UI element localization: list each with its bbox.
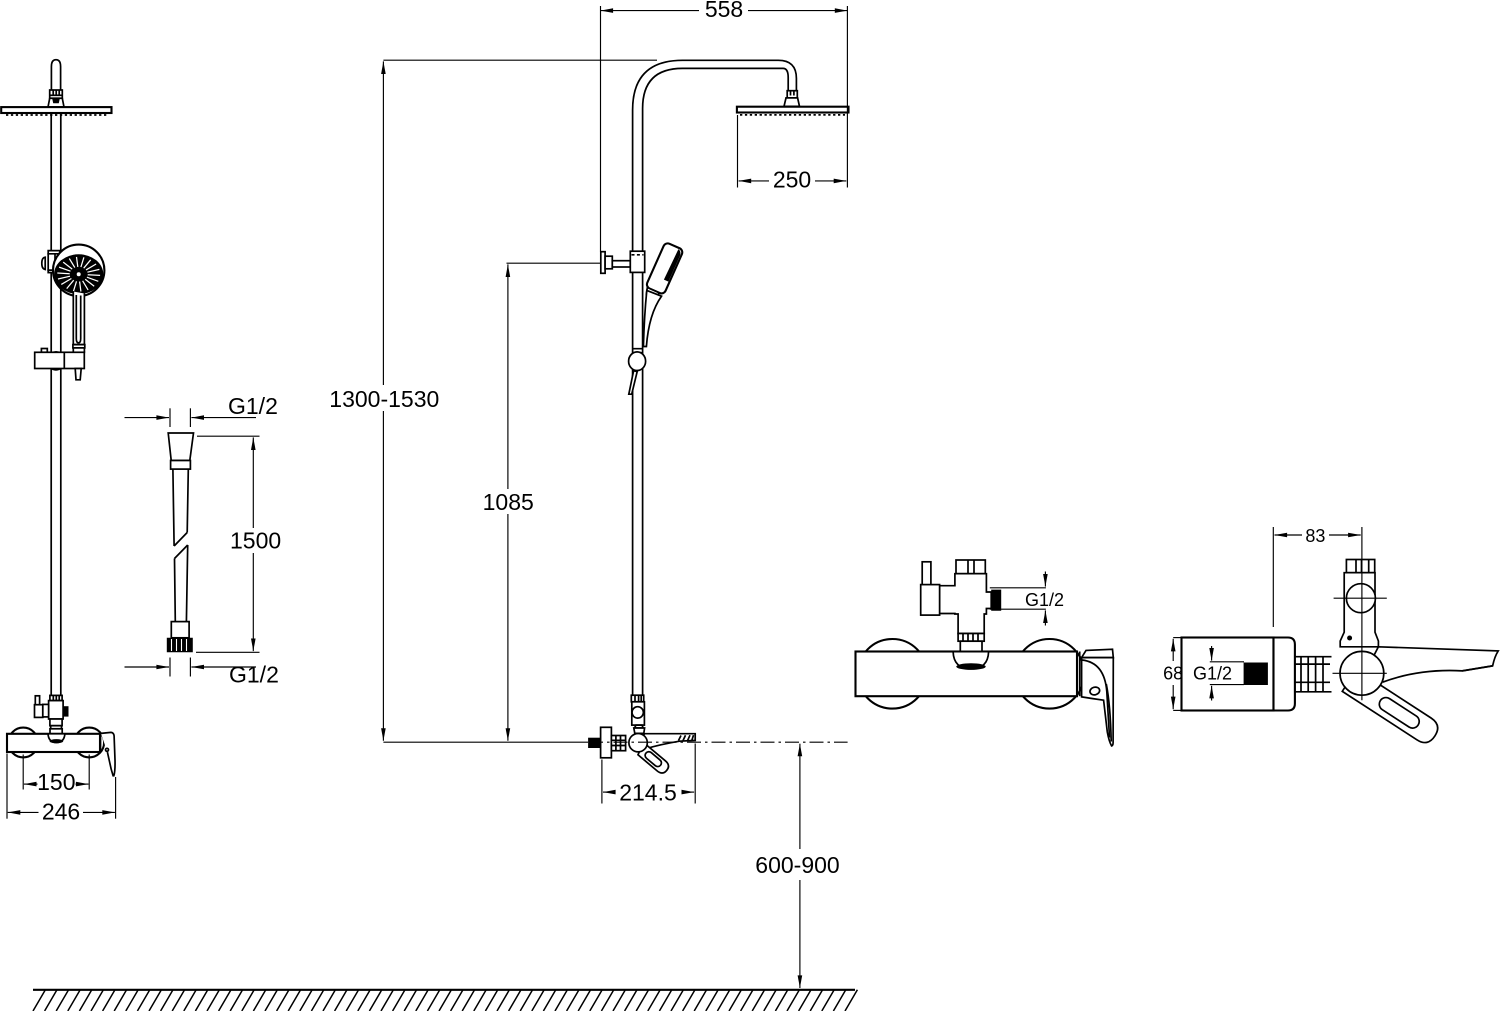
hose tube upper segment [173, 469, 188, 546]
diverter right port G1/2 (dark) [991, 590, 1001, 611]
hand shower handle [73, 292, 84, 345]
hand shower outer housing [53, 245, 104, 296]
diverter threads [958, 634, 984, 642]
hose bottom nut (dark) [167, 638, 193, 653]
diverter top nut [956, 560, 985, 574]
hose tube lower segment [175, 545, 188, 622]
dim G1/2 top ticks [169, 408, 171, 427]
mixer valve body circle [629, 734, 647, 752]
slider bracket [41, 349, 47, 353]
diverter vertical body [1340, 573, 1378, 647]
diverter top nut [1346, 560, 1374, 573]
left escutcheon circle [858, 639, 928, 709]
dim G1/2 bottom arrows [125, 666, 170, 668]
svg-text:68: 68 [1163, 663, 1183, 683]
diverter body [940, 574, 992, 634]
head flange (side) [784, 98, 800, 107]
dim 1085 [507, 264, 509, 489]
right escutcheon circle [74, 728, 104, 758]
diverter lower neck [960, 641, 982, 651]
diverter left lever [922, 562, 931, 587]
svg-text:83: 83 [1305, 526, 1325, 546]
diverter right port G1/2 [63, 706, 68, 716]
mixer inlet port G1/2 (dark) [588, 738, 600, 748]
diverter body [49, 701, 64, 719]
spout underside dark edge [1462, 666, 1492, 671]
overhead shower plate (front) [1, 107, 111, 113]
mixer body (front) [7, 734, 100, 752]
small dark dot [1347, 636, 1352, 641]
riser pipe with top bend (side view) [633, 60, 797, 695]
left escutcheon circle [8, 728, 38, 758]
adapter pivot circle [632, 707, 643, 718]
slider holder clamp [633, 349, 642, 353]
diverter lower neck [50, 719, 62, 726]
diverter top nut [50, 695, 62, 700]
dim 558 left extension line [600, 6, 602, 252]
mixer wall flange (side) [601, 727, 612, 758]
inlet port G1/2 (dark) [1244, 663, 1268, 686]
mixer adapter body [632, 702, 645, 725]
centre dash-dot line [589, 741, 848, 743]
hand shower face (dark) [54, 254, 103, 294]
dim G1/2 arrows [1044, 572, 1046, 587]
diverter pivot circle [1346, 584, 1375, 613]
mixer body (front) [856, 652, 1078, 697]
dim 150 extension lines [22, 755, 24, 790]
svg-text:G1/2: G1/2 [229, 661, 279, 687]
dim 558 / 250 right extension line [846, 6, 848, 188]
hose bottom fitting [171, 622, 189, 638]
mixer threaded connector [611, 736, 625, 751]
spout dome [48, 734, 65, 743]
threaded connector [1295, 657, 1332, 692]
dim 246 extension lines [6, 754, 8, 819]
hand shower handle (side) [643, 291, 661, 347]
dim G1/2 lines [990, 587, 1046, 589]
diverter knob block on pipe [630, 251, 644, 272]
mixer spout (side) [640, 734, 695, 749]
diverter left lever [35, 696, 39, 705]
svg-text:150: 150 [37, 769, 75, 795]
dim 1085 top extension line [507, 262, 602, 264]
handle tip below bracket [75, 369, 81, 380]
svg-text:1500: 1500 [230, 528, 281, 554]
hose top conical fitting [168, 433, 193, 461]
dim 214.5 extension lines [601, 760, 603, 804]
dim 1300-1530 top extension line [383, 59, 657, 61]
svg-text:1085: 1085 [483, 489, 534, 515]
svg-text:G1/2: G1/2 [1193, 664, 1232, 684]
svg-text:600-900: 600-900 [755, 852, 839, 878]
dim G1/2 port lines [1210, 661, 1244, 663]
spout outlet dark [50, 739, 64, 743]
body cap [1274, 638, 1295, 711]
dim 83 [1275, 534, 1303, 536]
dim 558 [601, 10, 700, 12]
hand shower holder mount [48, 251, 60, 254]
diverter knob stem [612, 261, 630, 267]
mixer handle (side) [1342, 670, 1442, 747]
overhead shower plate (side) [737, 107, 849, 113]
dim 1500 [252, 437, 254, 528]
dim 250 left extension line [737, 115, 739, 188]
top connector nut [50, 90, 63, 98]
dim 250 [739, 180, 769, 182]
hand shower head (side view) [643, 242, 684, 301]
centre crosshair vertical [1361, 527, 1363, 700]
dim 214.5 [603, 791, 615, 793]
ground hatching [33, 990, 857, 1011]
mixer handle (front) [101, 732, 115, 775]
valve crosshair horizontal [1333, 672, 1387, 674]
wall escutcheon (side) [1182, 638, 1274, 711]
dim 150 [24, 783, 38, 785]
dim G1/2 top arrows [125, 417, 170, 419]
right escutcheon circle [1015, 639, 1085, 709]
valve body circle [1340, 651, 1384, 695]
dim G1/2 arrows [1211, 646, 1213, 661]
dim 1300-1530 [382, 61, 384, 385]
mixer handle (front) [1082, 649, 1114, 657]
svg-text:558: 558 [705, 0, 743, 22]
spout dome [953, 652, 989, 669]
dim 600-900 [799, 744, 801, 849]
svg-text:1300-1530: 1300-1530 [329, 386, 439, 412]
pivot crosshair horizontal [1334, 597, 1387, 599]
head flange [48, 98, 64, 107]
diverter knob nut [605, 256, 612, 269]
dim 1500 extension lines [197, 435, 260, 437]
riser pipe (front view) [51, 60, 60, 90]
slider holder ring [629, 352, 646, 371]
bottom reference line to mixer centre [383, 741, 588, 743]
dim 83 left extension line [1272, 527, 1274, 627]
head connector nut (side) [787, 91, 797, 98]
spout (side) [1365, 647, 1498, 682]
svg-text:214.5: 214.5 [619, 779, 677, 805]
svg-text:G1/2: G1/2 [1025, 590, 1064, 610]
svg-text:250: 250 [773, 167, 811, 193]
svg-text:246: 246 [42, 798, 80, 824]
spray nozzles dotted line (side) [740, 114, 845, 116]
dim 246 [8, 811, 39, 813]
spray nozzles dotted line [6, 114, 107, 116]
adapter swivel cup [635, 725, 644, 728]
diverter knob flange plate [601, 252, 605, 274]
dim G1/2 bottom ticks [169, 658, 171, 677]
mixer adapter nut [631, 695, 643, 702]
spout outlet dark ellipse [956, 663, 985, 670]
mixer handle (side) [635, 743, 671, 776]
handle tip below holder [629, 371, 637, 394]
dim 68 [1172, 639, 1174, 661]
ground line [33, 989, 855, 991]
svg-text:G1/2: G1/2 [228, 393, 278, 419]
